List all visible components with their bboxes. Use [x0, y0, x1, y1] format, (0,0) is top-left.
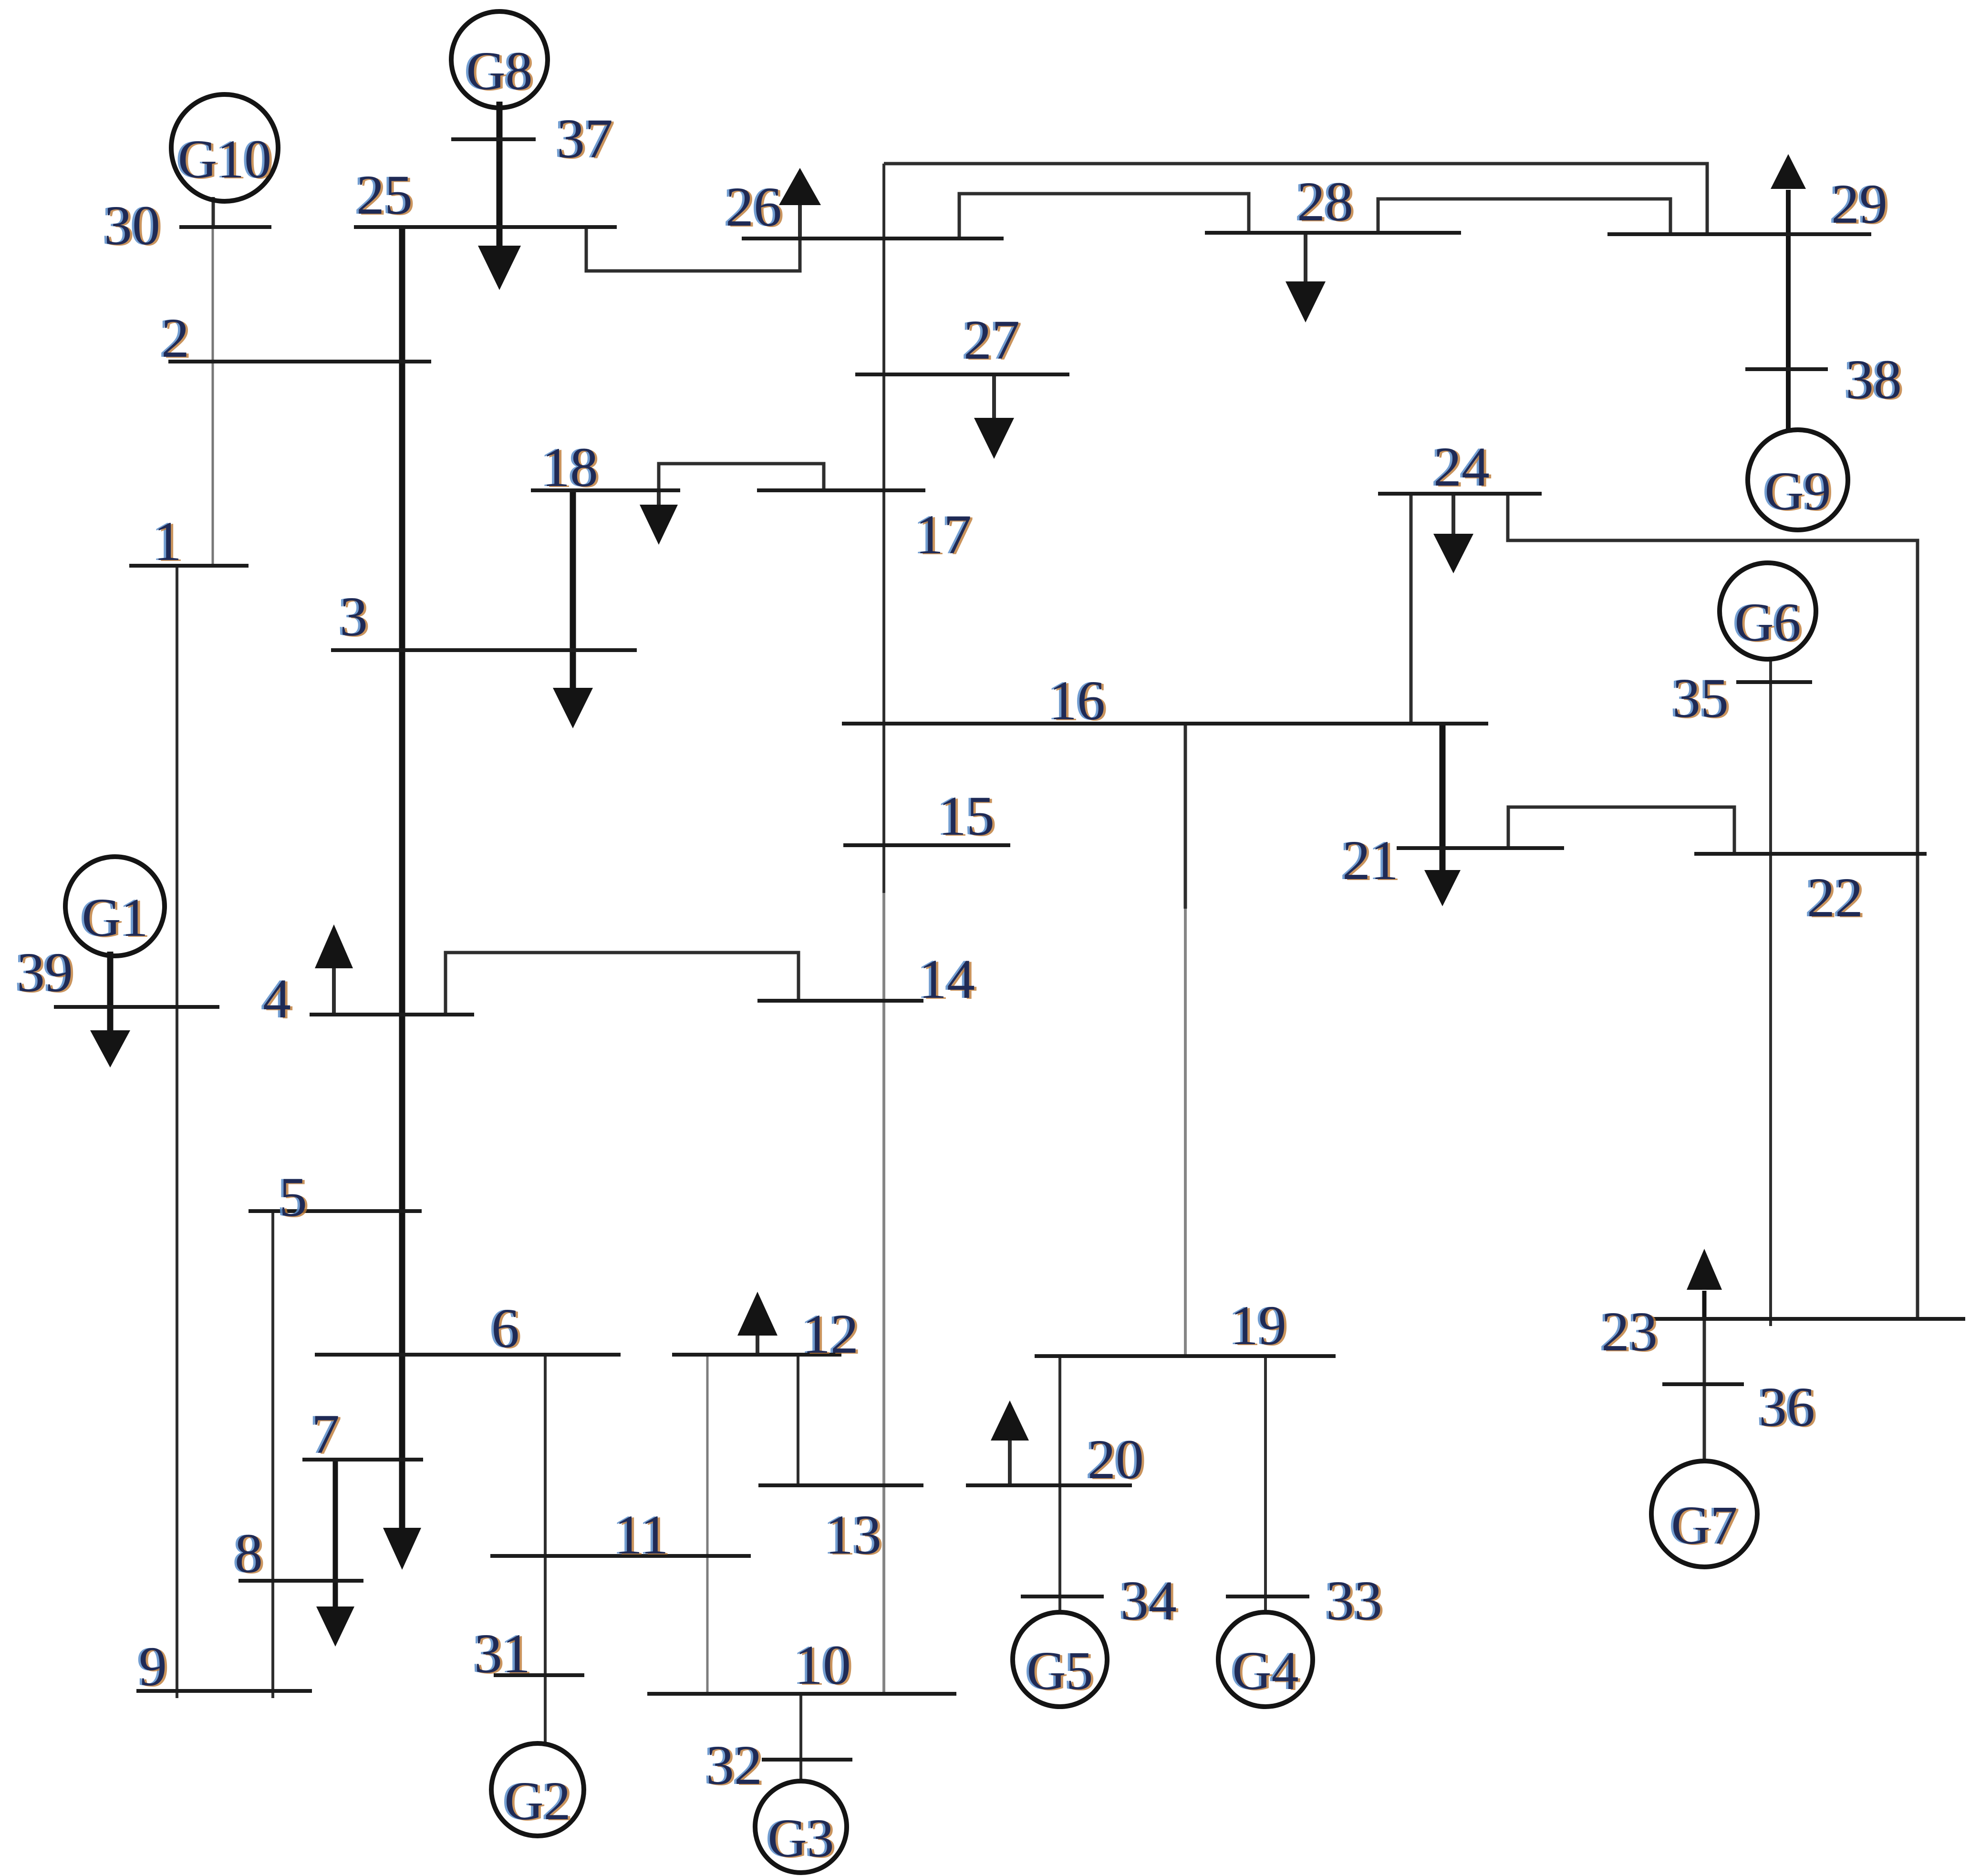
generator G8	[451, 11, 548, 108]
generator G10	[171, 94, 278, 201]
bus 8 bar	[238, 1579, 363, 1583]
bus 14 bar	[757, 999, 923, 1003]
wire 35-22-23 vertical / generator G6 stem	[1769, 660, 1772, 1326]
svg-text:22: 22	[1807, 866, 1863, 929]
svg-text:20: 20	[1088, 1428, 1144, 1491]
bus 2 bar	[168, 360, 431, 363]
bus 19 bar	[1035, 1354, 1336, 1358]
wire 12-13 vertical	[797, 1355, 799, 1485]
svg-text:23: 23	[1601, 1300, 1658, 1363]
svg-text:17: 17	[915, 503, 972, 566]
svg-text:18: 18	[542, 436, 598, 498]
generator G1	[65, 857, 165, 956]
svg-text:30: 30	[104, 194, 160, 257]
svg-text:G8: G8	[466, 41, 532, 101]
bus 39 bar	[54, 1005, 219, 1009]
wire 12-11-10 vertical	[706, 1355, 709, 1694]
wire 29-38 vertical / generator G9 stem	[1786, 234, 1791, 431]
svg-text:36: 36	[1759, 1376, 1815, 1438]
generator G3	[755, 1781, 847, 1873]
bus 38 transformer tick	[1745, 367, 1828, 371]
wire 26-29 top link	[884, 164, 1707, 234]
generator G9	[1748, 430, 1848, 530]
bus 17 bar	[757, 488, 925, 492]
wire 10-32 vertical / generator G3 stem	[799, 1694, 802, 1783]
bus 11 bar	[490, 1554, 751, 1558]
svg-text:G1: G1	[82, 887, 148, 948]
bus 20 bar	[966, 1483, 1132, 1487]
wire 14-13-10 vertical	[882, 893, 885, 1694]
bus 15 bar	[843, 843, 1010, 847]
svg-text:33: 33	[1326, 1569, 1382, 1632]
svg-text:14: 14	[919, 948, 975, 1010]
generator G10 stem	[212, 197, 215, 227]
generator G7	[1651, 1461, 1757, 1567]
bus 24 bar	[1378, 492, 1542, 496]
load arrow bus 28	[1304, 233, 1307, 284]
svg-text:15: 15	[938, 785, 995, 847]
bus 30 bar	[179, 225, 271, 229]
bus 29 bar	[1607, 232, 1871, 236]
svg-text:6: 6	[491, 1297, 519, 1359]
generator G1 stem with load arrow at bus 39	[107, 952, 114, 1031]
wire 24-23 link	[1508, 494, 1918, 1319]
load arrow bus 4 (up)	[332, 968, 336, 1015]
svg-text:G3: G3	[767, 1808, 834, 1868]
bus 16 bar	[842, 722, 1488, 726]
bus 28 bar	[1205, 231, 1461, 235]
bus 34 transformer tick	[1021, 1595, 1104, 1598]
load arrow bus 29 (up)	[1786, 190, 1791, 234]
svg-text:G10: G10	[178, 129, 271, 189]
wire 19-20-34 vertical / generator G5 stem	[1058, 1356, 1061, 1614]
load arrow bus 20 (up)	[1008, 1439, 1012, 1485]
svg-text:8: 8	[235, 1522, 263, 1585]
generator G2	[491, 1743, 584, 1836]
svg-text:29: 29	[1831, 173, 1887, 235]
wire 26-28 link	[959, 194, 1249, 238]
bus 27 bar	[855, 373, 1069, 376]
bus 37 transformer tick	[451, 137, 536, 141]
svg-text:39: 39	[17, 941, 73, 1004]
svg-text:31: 31	[474, 1622, 530, 1685]
svg-text:7: 7	[311, 1403, 340, 1465]
svg-text:26: 26	[726, 176, 782, 238]
svg-text:12: 12	[802, 1303, 859, 1365]
bus 22 bar	[1694, 852, 1927, 856]
svg-text:G4: G4	[1232, 1640, 1298, 1701]
wire 23-36 vertical / generator G7 stem	[1703, 1319, 1706, 1461]
bus 3 bar	[331, 648, 637, 652]
load arrow bus 27	[992, 374, 996, 421]
svg-text:25: 25	[356, 164, 413, 226]
svg-text:32: 32	[706, 1734, 762, 1796]
wire 4-14 link	[446, 953, 798, 1015]
bus 23 bar	[1649, 1317, 1965, 1321]
load arrow bus 24	[1452, 494, 1455, 537]
svg-text:9: 9	[139, 1635, 167, 1698]
generator G8 stem through bus 37 with load arrow at bus 25	[497, 102, 503, 247]
generator G4	[1218, 1612, 1313, 1707]
bus 26 bar	[742, 237, 1004, 240]
svg-text:G7: G7	[1671, 1495, 1737, 1555]
svg-text:24: 24	[1433, 435, 1490, 498]
svg-text:4: 4	[263, 967, 291, 1030]
wire 16-21 with load arrow at bus 21	[1440, 724, 1446, 871]
svg-text:G2: G2	[504, 1771, 570, 1831]
svg-text:27: 27	[964, 309, 1020, 371]
wire 25-2-3-4-5-6-7 vertical with load arrow at bus 7	[399, 227, 405, 1529]
load arrow bus 18	[657, 490, 661, 507]
wire 5-8-9 vertical	[271, 1211, 274, 1698]
wire 19-33 vertical / generator G4 stem	[1264, 1356, 1267, 1614]
load arrow bus 8	[333, 1460, 338, 1607]
svg-text:3: 3	[340, 585, 368, 648]
wire 28-29 link	[1378, 199, 1670, 234]
svg-text:1: 1	[154, 510, 182, 572]
svg-text:16: 16	[1049, 669, 1105, 732]
bus 21 bar	[1397, 846, 1564, 850]
svg-text:G5: G5	[1026, 1640, 1093, 1701]
wire 24-16 link	[1410, 494, 1413, 724]
generator G6	[1720, 563, 1816, 659]
bus 5 bar	[249, 1209, 422, 1213]
wire 21-22 link	[1508, 807, 1734, 854]
bus 1 bar	[129, 564, 249, 568]
svg-text:5: 5	[279, 1166, 307, 1228]
bus 32 transformer tick	[762, 1758, 852, 1762]
wire 30-2-1 vertical	[212, 227, 214, 566]
svg-text:28: 28	[1297, 170, 1353, 233]
wire 17-16-15-14 vertical	[882, 164, 885, 893]
svg-text:G6: G6	[1734, 592, 1801, 653]
svg-text:38: 38	[1846, 348, 1902, 411]
bus 33 transformer tick	[1226, 1595, 1309, 1598]
wire 6-11-31 vertical / generator G2 stem	[544, 1355, 547, 1744]
wire 16-19 upper	[1184, 724, 1187, 909]
bus 12 bar	[672, 1353, 841, 1357]
bus 36 transformer tick	[1662, 1382, 1744, 1386]
wire 16-19 lower	[1184, 909, 1187, 1356]
svg-text:11: 11	[614, 1503, 669, 1566]
svg-text:10: 10	[795, 1634, 851, 1696]
bus 10 bar	[647, 1692, 956, 1696]
bus 13 bar	[758, 1483, 923, 1487]
svg-text:34: 34	[1120, 1569, 1177, 1632]
svg-text:21: 21	[1342, 829, 1399, 891]
bus 31 transformer tick	[494, 1673, 584, 1677]
svg-text:13: 13	[825, 1503, 881, 1566]
svg-text:G9: G9	[1764, 461, 1831, 521]
wire 1-39-9 vertical	[176, 566, 178, 1698]
svg-text:35: 35	[1672, 667, 1729, 729]
wire 25-26 link	[586, 227, 800, 271]
load arrow bus 3	[570, 490, 576, 689]
bus 6 bar	[315, 1353, 621, 1357]
svg-text:19: 19	[1230, 1294, 1286, 1357]
bus 35 transformer tick	[1736, 680, 1812, 684]
bus 9 bar	[136, 1689, 312, 1693]
load arrow bus 12 (up)	[756, 1335, 759, 1355]
generator G5	[1013, 1612, 1107, 1707]
load arrow bus 26 (up)	[798, 204, 802, 238]
bus 18 bar	[531, 488, 680, 492]
load arrow bus 23 (up)	[1702, 1291, 1707, 1319]
bus 4 bar	[310, 1013, 474, 1016]
svg-text:37: 37	[557, 107, 613, 170]
bus 7 bar	[302, 1458, 423, 1461]
wire 18-17 link	[659, 464, 824, 490]
svg-text:2: 2	[161, 307, 189, 369]
bus 25 bar	[354, 225, 617, 229]
